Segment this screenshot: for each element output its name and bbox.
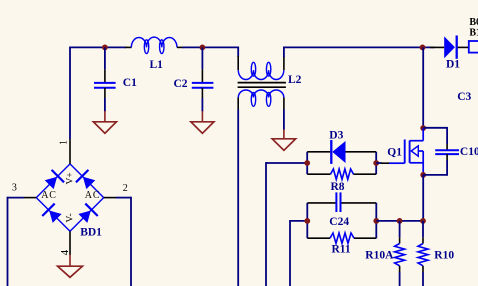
junction top rail / C1 — [102, 45, 108, 51]
wire C10 bottom to Q1 source node — [423, 174, 447, 176]
inductor L1 pin left — [125, 46, 132, 48]
transistor Q1 (N-MOSFET) — [387, 128, 423, 175]
diode D3 — [329, 130, 345, 164]
wire L1 to L2 corner — [183, 46, 239, 48]
svg-text:L1: L1 — [150, 59, 164, 71]
resistor R10 lead upper — [422, 221, 424, 244]
wire L2 primary right up to top rail — [283, 47, 285, 58]
svg-text:4: 4 — [59, 249, 71, 255]
bridge pin name V+ — [66, 172, 76, 184]
ground power port below C1 — [93, 111, 116, 133]
gate pin of Q1 — [389, 162, 405, 164]
junction top rail / drain branch — [420, 45, 426, 51]
wire from lower-left corner to C24/R11 pair — [290, 220, 307, 222]
svg-text:Q1: Q1 — [387, 146, 402, 158]
svg-text:R10A: R10A — [365, 249, 394, 261]
ground power port below L2 — [272, 129, 295, 150]
junction C24/R11 left — [304, 218, 310, 224]
diode D1 pin right — [458, 46, 469, 48]
wire L2 secondary left down to bottom edge — [237, 110, 239, 286]
transformer L2 primary winding — [238, 62, 301, 86]
bridge pin 4 number — [59, 249, 71, 255]
bridge pin 2 number — [123, 183, 128, 194]
svg-text:D1: D1 — [446, 58, 460, 70]
resistor R10A lead upper — [399, 221, 401, 244]
junction top rail / C2 — [200, 45, 206, 51]
svg-text:AC: AC — [41, 190, 57, 201]
diode D3 pin leads — [307, 151, 376, 153]
ground power port below C2 — [191, 111, 214, 133]
capacitor C10 — [435, 146, 478, 158]
svg-text:B0: B0 — [469, 17, 478, 28]
wire D3/R8 right junction to Q1 gate — [376, 162, 381, 164]
net label B1 (clipped) — [469, 28, 478, 39]
wire Q1 source down to lower rail — [422, 175, 424, 221]
wire corner down to bottom edge (D3 branch) — [265, 162, 267, 286]
junction lower rail / R10 — [420, 218, 426, 224]
bridge pin 3 (left AC) — [24, 197, 36, 199]
wire top rail right section — [284, 46, 435, 48]
wire top junction down to Q1 drain node — [422, 47, 424, 128]
capacitor C10 pin upper — [446, 127, 448, 150]
capacitor C2 pin lower — [201, 88, 203, 112]
bridge pin name AC left — [41, 190, 57, 201]
net label B0 (clipped) — [469, 17, 478, 28]
svg-text:B1: B1 — [469, 28, 478, 39]
capacitor C2 pin upper — [201, 47, 203, 82]
svg-text:L2: L2 — [288, 74, 302, 86]
C24/R11 box left side wire — [306, 203, 308, 238]
capacitor C1 pin lower — [104, 88, 106, 112]
bridge diode lower-right (V- to AC) — [78, 204, 97, 223]
transformer L2 primary pin left — [237, 56, 239, 70]
junction Q1 source / C10 bottom — [420, 172, 426, 178]
capacitor C24 — [329, 192, 349, 227]
capacitor C2 — [174, 78, 214, 90]
designator C3 (component off-screen) — [457, 91, 471, 103]
svg-text:2: 2 — [123, 183, 128, 194]
diode D1 pin left — [430, 46, 444, 48]
svg-text:3: 3 — [12, 182, 17, 193]
svg-text:V-: V- — [66, 213, 76, 222]
svg-text:C10: C10 — [460, 146, 478, 158]
wire Q1 drain node to C10 top — [423, 127, 447, 129]
resistor R8 pin leads — [307, 173, 376, 175]
svg-text:BD1: BD1 — [80, 226, 102, 238]
C24/R11 box right side wire — [375, 203, 377, 238]
svg-text:R10: R10 — [434, 249, 454, 261]
capacitor C10 pin lower — [446, 154, 448, 176]
bridge BD1 designator — [80, 226, 102, 238]
wire right AC down to bottom edge — [130, 197, 132, 286]
bridge pin 1 (top, V+) — [69, 139, 71, 164]
wire corner down to bottom edge (C24 branch) — [289, 220, 291, 286]
svg-text:R8: R8 — [331, 181, 345, 193]
capacitor C1 pin upper — [104, 47, 106, 82]
diode D1 — [444, 36, 460, 71]
resistor R8 — [331, 169, 354, 193]
junction lower rail / R10A — [397, 218, 403, 224]
resistor R10 lead lower — [422, 266, 424, 286]
junction C24/R11 right — [373, 218, 379, 224]
bridge pin 3 number — [12, 182, 17, 193]
bridge pin name V- — [66, 213, 76, 222]
transformer L2 secondary pin right — [283, 98, 285, 110]
svg-text:1: 1 — [59, 140, 70, 145]
capacitor C1 — [94, 77, 137, 89]
ground power port below BD1 — [58, 255, 83, 278]
svg-text:V+: V+ — [66, 172, 76, 184]
resistor R11 — [330, 233, 354, 255]
bridge diode upper-right (AC to V+) — [76, 170, 95, 189]
bridge BD1 diamond outline — [36, 164, 103, 231]
vertical wire left corner down to bridge BD1 — [69, 47, 71, 140]
gate pin lead black segment — [381, 162, 389, 164]
svg-text:C3: C3 — [457, 91, 471, 103]
resistor R11 pin leads — [307, 237, 376, 239]
bridge diode upper-left (AC to V+) — [45, 170, 64, 189]
inductor L1 — [131, 37, 177, 71]
wire bridge right AC to corner — [116, 197, 131, 199]
bridge pin 4 (bottom, V-) — [69, 231, 71, 255]
bridge diode lower-left (V- to AC) — [42, 204, 61, 223]
bridge pin name AC right — [85, 190, 101, 201]
junction D3/R8 right — [373, 160, 379, 166]
transformer L2 secondary pin left — [237, 98, 239, 110]
resistor R10A lead lower — [399, 266, 401, 286]
transformer L2 primary pin right — [283, 56, 285, 70]
svg-text:AC: AC — [85, 190, 101, 201]
capacitor C24 pin leads — [307, 202, 376, 204]
wire L2 secondary right to ground — [283, 110, 285, 130]
connector box at right edge (partial) — [469, 41, 478, 53]
svg-text:R11: R11 — [332, 243, 351, 255]
resistor R10A — [365, 244, 404, 266]
bridge pin 1 number — [59, 140, 70, 145]
transformer L2 secondary winding — [238, 90, 283, 106]
svg-text:C2: C2 — [174, 78, 188, 90]
transformer L2 core — [238, 83, 286, 88]
svg-text:C24: C24 — [329, 216, 349, 228]
svg-text:D3: D3 — [329, 130, 343, 142]
wire top rail from left corner to L1 — [70, 46, 126, 48]
wire corner into L2 primary left — [237, 47, 239, 58]
D3/R8 box right side wire — [375, 152, 377, 174]
svg-text:C1: C1 — [123, 77, 137, 89]
wire from left corner to D3/R8 pair — [266, 162, 307, 164]
junction D3/R8 left — [304, 160, 310, 166]
D3/R8 box left side wire — [306, 152, 308, 174]
wire lower rail C24 pair to R10/R10A — [376, 220, 423, 222]
bridge pin 2 (right AC) — [104, 197, 116, 199]
inductor L1 pin right — [177, 46, 184, 48]
wire left AC down to bottom edge — [7, 197, 9, 286]
junction Q1 drain / C10 top — [420, 125, 426, 131]
wire bridge left AC to corner — [8, 197, 25, 199]
resistor R10 — [418, 244, 454, 266]
